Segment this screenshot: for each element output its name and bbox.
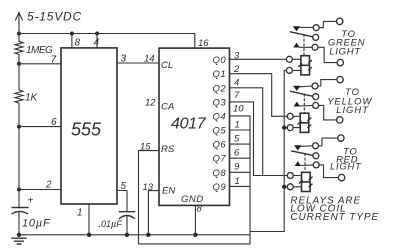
svg-text:Q9: Q9 — [213, 182, 227, 193]
wire Q3 to red coil — [230, 102, 288, 176]
wire ground rail — [19, 234, 250, 236]
svg-text:Q7: Q7 — [213, 154, 227, 165]
relay K2 NC contact triangle — [293, 86, 300, 91]
relay K1 NO contact triangle — [293, 43, 299, 48]
relay K3 NC contact triangle — [294, 145, 301, 150]
svg-text:7: 7 — [234, 90, 240, 101]
relay K3 NO contact triangle — [295, 161, 301, 166]
wire NO to yellow light terminal — [319, 105, 337, 120]
svg-text:1MEG: 1MEG — [26, 45, 53, 56]
svg-text:5-15VDC: 5-15VDC — [27, 10, 82, 24]
node pin1 ground junction — [87, 233, 91, 237]
terminal green light bottom — [337, 59, 343, 65]
wire coil K3 to commons — [284, 186, 287, 188]
node C2 ground junction — [125, 233, 129, 237]
relay K1 armature — [290, 32, 313, 37]
wire Q2 to red coil feed — [230, 88, 263, 176]
wire pin1 stub — [88, 204, 90, 235]
svg-text:4017: 4017 — [171, 116, 207, 133]
svg-text:LIGHT: LIGHT — [329, 46, 361, 57]
contact terminal — [313, 162, 319, 168]
resistor R2 1K — [15, 90, 23, 103]
ground — [12, 238, 26, 244]
svg-text:555: 555 — [71, 120, 102, 140]
svg-text:CURRENT TYPE: CURRENT TYPE — [290, 212, 379, 223]
wire Q5 stub — [230, 129, 251, 131]
node pin6 junction — [17, 125, 21, 129]
relay K1 green: coil — [299, 56, 312, 75]
svg-text:1: 1 — [235, 119, 240, 130]
svg-text:Q1: Q1 — [213, 69, 227, 80]
wire pin8 stub — [71, 34, 73, 48]
wire top rail — [19, 34, 195, 49]
node pin7 junction — [17, 62, 21, 66]
relay K2 mechanical link — [303, 94, 305, 113]
terminal yellow light bottom — [337, 117, 343, 123]
wire NO to green light terminal — [318, 47, 337, 62]
wire NO to terminal — [300, 104, 313, 107]
wire — [293, 186, 301, 188]
node pin8 ground junction — [193, 233, 197, 237]
wire pin3 to pin14 — [117, 62, 159, 64]
svg-text:1: 1 — [77, 208, 83, 219]
wire Q1 to yellow coil — [230, 74, 288, 117]
svg-text:14: 14 — [144, 54, 155, 65]
wire reset lower rail — [139, 243, 251, 245]
svg-text:Q4: Q4 — [213, 111, 227, 122]
wire pin6 — [19, 126, 61, 128]
svg-text:6: 6 — [234, 148, 240, 159]
relay K1 NC contact triangle — [293, 26, 300, 31]
svg-text:EN: EN — [162, 186, 175, 197]
wire NC to green light terminal — [319, 21, 336, 27]
armature pivot terminal — [313, 94, 319, 100]
svg-text:LIGHT: LIGHT — [330, 161, 362, 172]
svg-text:Q2: Q2 — [213, 83, 227, 94]
wire — [18, 103, 20, 208]
armature pivot terminal — [313, 153, 319, 159]
wire — [18, 54, 20, 90]
svg-text:7: 7 — [51, 54, 57, 65]
node pin8 tap — [70, 32, 74, 36]
svg-text:5: 5 — [234, 134, 240, 145]
svg-text:1K: 1K — [25, 93, 39, 104]
contact terminal — [313, 102, 319, 108]
svg-text:RS: RS — [161, 144, 175, 155]
wire Q8 stub — [230, 171, 251, 173]
svg-text:16: 16 — [198, 38, 209, 49]
label TO GREEN LIGHT — [328, 29, 365, 57]
wire NC to yellow light terminal — [318, 80, 337, 86]
wire NC to terminal — [300, 26, 314, 28]
node pin2 junction — [17, 188, 21, 192]
contact terminal — [312, 44, 318, 50]
svg-text:Q3: Q3 — [213, 97, 227, 108]
wire — [292, 58, 301, 60]
relay K2 armature — [291, 91, 313, 96]
svg-text:LIGHT: LIGHT — [336, 105, 369, 116]
svg-text:Q5: Q5 — [213, 126, 227, 137]
wire Q4 stub — [230, 115, 251, 117]
label TO YELLOW LIGHT — [327, 87, 372, 116]
wire pin7 — [19, 63, 61, 65]
relay K3 armature — [292, 151, 314, 156]
wire — [292, 69, 301, 71]
svg-text:1: 1 — [235, 176, 240, 187]
svg-text:6: 6 — [51, 117, 57, 128]
wire — [293, 115, 300, 117]
wire — [293, 127, 300, 129]
wire pin4 stub — [96, 34, 98, 48]
wire pin15 reset — [139, 151, 160, 244]
coil terminal K1 top — [286, 56, 292, 62]
svg-text:10: 10 — [233, 104, 244, 115]
svg-text:+: + — [28, 196, 34, 207]
wire pin13 enable to ground — [148, 191, 159, 235]
coil terminal K2 top — [287, 113, 293, 119]
wire NO to red light terminal — [319, 165, 338, 178]
wire pin5 — [117, 191, 127, 212]
terminal red light bottom — [338, 174, 344, 180]
contact terminal — [313, 25, 319, 31]
relay K2 NO contact triangle — [294, 102, 300, 107]
svg-text:Q8: Q8 — [213, 168, 227, 179]
wire coil K1 to commons — [284, 69, 286, 71]
capacitor C1 10uF — [12, 208, 28, 235]
wire coil K2 to commons — [284, 127, 287, 129]
wire NO to terminal — [301, 164, 313, 167]
label TO RED LIGHT — [330, 147, 362, 173]
contact terminal — [312, 83, 318, 89]
node commons K3 junction — [282, 185, 286, 189]
svg-text:12: 12 — [145, 98, 156, 109]
wire Q4-Q9 rail to reset — [249, 116, 251, 244]
contact terminal — [313, 143, 319, 149]
coil terminal K3 bottom — [287, 184, 293, 190]
terminal green light top — [337, 18, 343, 24]
power supply arrow — [16, 13, 23, 34]
terminal red light top — [338, 135, 344, 141]
node commons K2 junction — [282, 125, 286, 129]
IC U2 4017 box — [159, 48, 230, 205]
svg-text:CL: CL — [161, 60, 173, 71]
wire pin8 stub to ground — [194, 205, 196, 234]
relay K3 mechanical link — [304, 154, 306, 172]
node ground junction — [17, 233, 21, 237]
wire Q9 stub — [230, 185, 251, 187]
svg-text:Q6: Q6 — [213, 140, 227, 151]
svg-text:Q0: Q0 — [213, 55, 227, 66]
wire Q6 stub — [230, 143, 251, 145]
op-amp U1 555 timer box — [61, 48, 117, 204]
label relays note — [290, 195, 379, 223]
wire left rail — [18, 34, 20, 42]
coil terminal K2 bottom — [287, 125, 293, 131]
node top-left junction — [17, 32, 21, 36]
relay K2 yellow: coil — [298, 113, 311, 132]
wire relay commons rail — [250, 70, 284, 231]
wire NO to terminal — [300, 46, 313, 48]
svg-text:10µF: 10µF — [22, 218, 51, 230]
capacitor C2 .01uF — [119, 212, 134, 235]
armature pivot terminal — [313, 34, 319, 40]
svg-text:2: 2 — [45, 180, 52, 191]
coil terminal K3 top — [287, 173, 293, 179]
wire Q7 stub — [230, 157, 251, 159]
wire — [293, 175, 301, 177]
terminal yellow light top — [337, 76, 343, 82]
svg-text:4: 4 — [94, 38, 100, 49]
svg-text:8: 8 — [75, 38, 81, 49]
relay K3 red: coil — [299, 172, 312, 191]
coil terminal K1 bottom — [286, 67, 292, 73]
svg-text:.01µF: .01µF — [99, 219, 123, 229]
wire NC to red light terminal — [319, 138, 338, 146]
wire NC to terminal — [301, 145, 313, 148]
resistor R1 1MEG — [15, 41, 23, 54]
relay K1 mechanical link — [303, 35, 305, 56]
svg-text:CA: CA — [161, 102, 174, 113]
svg-text:9: 9 — [234, 162, 240, 173]
svg-text:4: 4 — [234, 77, 239, 88]
wire NC to terminal — [300, 85, 312, 88]
wire pin2 — [19, 189, 61, 191]
wire Q0 to green coil — [230, 58, 287, 60]
node pin13 ground junction — [146, 233, 150, 237]
svg-text:8: 8 — [197, 204, 203, 215]
node pin4 tap — [95, 32, 99, 36]
